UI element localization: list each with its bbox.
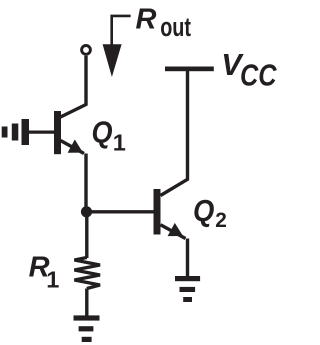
svg-text:1: 1 <box>113 130 126 156</box>
label Q2 <box>193 193 227 232</box>
svg-text:1: 1 <box>46 266 59 292</box>
transistor Q1 base bar <box>54 111 61 154</box>
label Q1 <box>92 114 126 155</box>
svg-text:CC: CC <box>240 58 277 92</box>
ground below R1 <box>74 315 100 342</box>
arrowhead R_out pointing down <box>103 44 122 77</box>
ground below Q2 <box>175 276 200 302</box>
ground (small-signal, sideways) at Q1 base <box>2 119 29 145</box>
wire Q2 emitter down to ground <box>186 239 189 277</box>
wire Q1 collector to terminal <box>61 56 87 117</box>
wire R1 to ground <box>85 289 88 317</box>
Q2 emitter arrow <box>168 223 183 236</box>
wire Q1 base lead <box>28 131 54 134</box>
wire node to Q2 base <box>87 210 154 213</box>
Q1 emitter arrow <box>68 140 83 153</box>
svg-text:R: R <box>136 4 157 36</box>
wire node down to R1 <box>85 212 88 258</box>
svg-text:2: 2 <box>215 209 227 232</box>
output terminal (open circle) <box>82 46 91 55</box>
node junction dot <box>81 206 92 217</box>
label R_out <box>136 4 192 42</box>
wire R_out pointer bend <box>112 16 131 48</box>
wire VCC to Q2 collector <box>161 71 188 196</box>
svg-text:out: out <box>160 12 191 42</box>
wire Q2 emitter diagonal <box>161 225 186 239</box>
svg-text:Q: Q <box>193 193 214 228</box>
VCC supply bar <box>165 67 214 72</box>
label VCC <box>221 48 277 93</box>
transistor Q2 base bar <box>154 189 161 235</box>
resistor R1 zigzag <box>74 258 100 289</box>
svg-text:Q: Q <box>92 114 113 149</box>
label R1 <box>29 252 60 293</box>
wire Q1 emitter diagonal <box>61 141 85 154</box>
wire Q1 emitter down to node <box>84 154 87 213</box>
